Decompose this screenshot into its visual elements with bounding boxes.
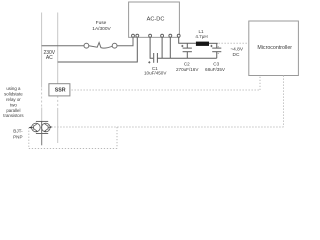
- wire SSR control to microcontroller (dashed): [72, 76, 261, 91]
- svg-text:SSR: SSR: [55, 88, 66, 94]
- emitter arrow Q1: [36, 130, 38, 132]
- wire dashed branch down at x=117: [116, 127, 118, 149]
- pin 4: [161, 34, 164, 37]
- svg-text:AC: AC: [46, 55, 53, 61]
- svg-text:10uF/450V: 10uF/450V: [144, 71, 167, 76]
- wire base to microcontroller (dashed): [51, 76, 283, 128]
- svg-text:~4.8V: ~4.8V: [230, 46, 243, 52]
- wire pin4 down to bus: [161, 37, 163, 58]
- label 230V AC: [43, 50, 55, 61]
- base stub left with arrow: [29, 127, 32, 129]
- wire neutral to AC-DC pin 2: [58, 37, 138, 62]
- svg-text:C3: C3: [213, 62, 219, 67]
- label Fuse 1A/300V: [92, 20, 111, 32]
- pin 2: [136, 34, 139, 37]
- wire dashed bottom return: [29, 148, 117, 150]
- node N rail (230V neutral vertical): [57, 13, 59, 144]
- svg-text:Fuse: Fuse: [96, 20, 107, 26]
- label L1 4.7uH: [195, 29, 207, 39]
- node L rail (230V live vertical): [41, 13, 43, 122]
- emitter bar (top): [36, 120, 48, 122]
- wire collector output down: [41, 134, 43, 146]
- label C1 10uF/450V: [144, 66, 167, 76]
- wire pin6 to DC+ line: [179, 37, 196, 43]
- svg-text:1A/300V: 1A/300V: [92, 26, 111, 32]
- svg-text:transistors: transistors: [3, 113, 24, 118]
- svg-text:AC-DC: AC-DC: [147, 17, 165, 23]
- emitter arrow Q2: [44, 130, 46, 132]
- wire through transistors: [41, 121, 43, 133]
- wire dashed left drop: [28, 128, 30, 149]
- node DC- bus: [157, 57, 216, 59]
- note text: using a solidstate relay or two parallel transistors: [3, 86, 24, 118]
- svg-text:PNP: PNP: [13, 134, 22, 139]
- label BJT-PNP: [13, 128, 23, 139]
- wire pin3 down to C1: [150, 37, 153, 58]
- microcontroller U2 box: [249, 21, 299, 76]
- svg-text:two: two: [10, 102, 17, 107]
- AC-DC module U1 box: [129, 2, 180, 37]
- pin 3: [149, 34, 152, 37]
- polarity + of C1: [148, 61, 150, 63]
- wire dashed DC+ to microcontroller: [219, 42, 249, 44]
- base stub right arrow: [50, 126, 52, 128]
- polarity + of C3: [210, 45, 212, 47]
- collector bar (bottom): [36, 133, 48, 135]
- label C2 270uF/16V: [176, 62, 199, 72]
- wire L1 to dashed DC out: [209, 42, 218, 44]
- pin 5: [169, 34, 172, 37]
- capacitor C2: [183, 43, 192, 58]
- polarity - marks of C3: [218, 47, 219, 54]
- svg-text:270uF/16V: 270uF/16V: [176, 67, 199, 72]
- wire pin5 down to bus: [169, 37, 171, 58]
- pin 1: [132, 34, 135, 37]
- pin 6: [177, 34, 180, 37]
- transistor Q2 (right PNP): [42, 123, 51, 132]
- capacitor C1: [154, 53, 158, 63]
- svg-text:DC: DC: [233, 52, 240, 58]
- svg-text:BJT-: BJT-: [13, 128, 23, 133]
- capacitor C3: [212, 43, 221, 58]
- wire live to fuse: [42, 45, 84, 47]
- inductor L1: [196, 42, 209, 46]
- svg-text:Microcontroller: Microcontroller: [257, 45, 292, 51]
- transistor Q1 (left PNP): [32, 123, 41, 132]
- svg-text:using a: using a: [6, 86, 21, 91]
- SSR box: [49, 84, 70, 96]
- svg-text:68uF/35V: 68uF/35V: [205, 67, 226, 72]
- wire fuse to AC-DC pin 1: [117, 37, 133, 46]
- svg-text:solidstate: solidstate: [4, 92, 23, 97]
- svg-text:parallel: parallel: [6, 108, 20, 113]
- polarity + of C2: [181, 45, 183, 47]
- svg-text:C2: C2: [184, 62, 190, 67]
- svg-text:4.7μH: 4.7μH: [195, 34, 207, 39]
- label ~4.8V DC: [230, 46, 243, 58]
- svg-text:relay or: relay or: [6, 97, 21, 102]
- fuse F1 1A/300V: [84, 43, 117, 49]
- label C3 68uF/35V: [205, 62, 226, 72]
